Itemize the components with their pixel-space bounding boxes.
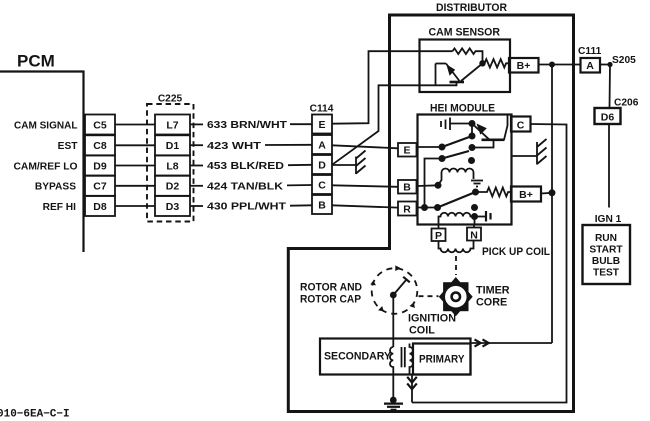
pin D2 [155, 176, 190, 196]
wire switch2 to R row [425, 159, 443, 208]
svg-text:453 BLK/RED: 453 BLK/RED [207, 161, 284, 172]
node secondary ground junction [390, 397, 397, 404]
pin HEI R [398, 202, 417, 216]
svg-text:L8: L8 [166, 160, 178, 172]
svg-text:C111: C111 [578, 46, 602, 57]
wire C114 D diagonal up into distributor [332, 85, 457, 165]
pin HEI B [398, 180, 417, 194]
wire coil2 down to N [474, 217, 476, 225]
svg-text:EST: EST [58, 141, 79, 152]
svg-text:PRIMARY: PRIMARY [419, 354, 465, 366]
rotor contact [390, 277, 410, 299]
wire stub L7 [190, 123, 203, 125]
wire HEI C to right bus [412, 124, 567, 403]
switch2 blade [442, 151, 469, 159]
transformer secondary winding [390, 347, 393, 399]
svg-text:D1: D1 [166, 140, 180, 152]
wire R pin into module [418, 207, 438, 209]
node R row left [421, 204, 428, 211]
HEI module box [418, 115, 512, 225]
primary box [413, 344, 471, 375]
svg-text:C: C [318, 179, 326, 191]
svg-text:B+: B+ [517, 60, 531, 72]
capacitor (pickup) [475, 211, 491, 222]
svg-text:START: START [589, 245, 623, 256]
resistor R1 (cam sensor pull-up) [453, 48, 483, 60]
distributor outline [288, 15, 573, 412]
wire C5-L7 [115, 124, 155, 126]
dashed link pickup to timer core [455, 256, 457, 275]
dashed link timer core to rotor [419, 295, 439, 297]
ground (ignition coil) [384, 404, 403, 410]
wire C114 B to HEI pin R [332, 205, 398, 207]
pin D3 [155, 196, 190, 216]
inductor coil2 (pickup primary) [439, 213, 476, 225]
svg-text:D6: D6 [601, 111, 615, 123]
wire 633 to C114 E [290, 123, 312, 125]
svg-text:CORE: CORE [476, 297, 507, 309]
wire D8-D3 [115, 205, 155, 207]
transistor Q2 (HEI output) [472, 116, 508, 140]
wire 423 to C114 A [265, 144, 312, 146]
node HEI A [469, 120, 476, 127]
svg-text:IGNITION: IGNITION [408, 313, 456, 325]
wire C111 A to S205 [600, 64, 610, 66]
rotor dashed circle [372, 268, 418, 314]
pin D8 [85, 196, 115, 216]
inductor coil1 [438, 169, 474, 186]
transformer primary winding [410, 344, 413, 375]
svg-text:A: A [318, 139, 326, 151]
svg-text:TEST: TEST [593, 268, 620, 279]
wire primary feed with arrows [471, 339, 553, 346]
pin C114 A [312, 135, 332, 154]
svg-text:PCM: PCM [17, 52, 55, 71]
wire C114 D to chassis ground [332, 164, 356, 166]
svg-text:P: P [435, 230, 442, 242]
svg-text:C7: C7 [93, 181, 107, 193]
resistor R2 (cam sensor output) [483, 59, 511, 67]
svg-text:D: D [318, 159, 326, 171]
svg-text:CAM/REF LO: CAM/REF LO [14, 161, 78, 172]
pickup coil winding [439, 241, 474, 253]
wire S205 down to C206 [609, 65, 612, 109]
node switch3 pivot [434, 204, 441, 211]
transistor Q1 (cam sensor) [436, 64, 481, 87]
wire C114 E up to cam sensor [332, 51, 453, 124]
resistor R3 (HEI) [476, 188, 512, 197]
cam sensor box [420, 40, 511, 93]
svg-text:RUN: RUN [595, 233, 617, 244]
svg-text:D9: D9 [93, 160, 107, 172]
node ignition feed junction [549, 62, 555, 68]
svg-text:D8: D8 [93, 201, 107, 213]
label IGNITION COIL [408, 313, 456, 337]
svg-text:B: B [318, 199, 326, 211]
svg-text:DISTRIBUTOR: DISTRIBUTOR [436, 2, 507, 14]
svg-text:PICK UP COIL: PICK UP COIL [482, 246, 550, 258]
svg-text:E: E [403, 145, 410, 157]
capacitor C (HEI noise) [441, 118, 472, 131]
wire node A to node B [471, 124, 473, 137]
svg-text:424 TAN/BLK: 424 TAN/BLK [207, 182, 284, 193]
svg-text:430 PPL/WHT: 430 PPL/WHT [207, 202, 287, 213]
svg-text:C206: C206 [614, 97, 639, 108]
pin D9 [85, 156, 115, 176]
pin C114 D [312, 155, 332, 174]
node coil1 junction [435, 182, 442, 189]
pin P [432, 225, 446, 243]
wire C7-D2 [115, 185, 155, 187]
wire HEI B+ to ignition feed [541, 192, 552, 195]
svg-text:E: E [318, 119, 325, 131]
rotor rotation arrows [370, 265, 415, 311]
pin HEI E [398, 143, 417, 157]
svg-text:C: C [517, 119, 525, 131]
pin C111 A [581, 58, 601, 73]
node HEI D' contact [468, 157, 475, 164]
wire C' contact to Q2 base [472, 141, 494, 148]
wire E pin to switch1 [418, 146, 443, 148]
timer core [439, 277, 473, 316]
svg-text:SECONDARY: SECONDARY [324, 351, 392, 363]
svg-text:ROTOR CAP: ROTOR CAP [300, 294, 361, 306]
pin L8 [155, 156, 190, 176]
node coil2 right [471, 213, 478, 220]
wire C8-D1 [115, 144, 155, 146]
svg-text:423 WHT: 423 WHT [207, 141, 262, 152]
node resistor R3 left [472, 189, 479, 196]
chassis ground at module case [537, 139, 547, 165]
svg-text:C8: C8 [93, 140, 107, 152]
svg-text:C114: C114 [310, 104, 334, 115]
node switch2 pivot [439, 155, 446, 162]
svg-text:COIL: COIL [409, 325, 435, 337]
node spare contact [471, 204, 478, 211]
pin C8 [85, 135, 115, 155]
wire C114 C to HEI pin B [332, 185, 398, 187]
svg-text:L7: L7 [166, 119, 178, 131]
pin HEI C [511, 117, 531, 132]
wire 453 to C114 D [288, 164, 312, 166]
wire ignition feed down [551, 65, 553, 344]
svg-text:C5: C5 [93, 119, 107, 131]
svg-text:C225: C225 [158, 94, 183, 105]
wire stub D2 [190, 185, 203, 187]
pin C114 C [312, 175, 332, 194]
pin L7 [155, 115, 190, 135]
B+ terminal (cam sensor) [509, 58, 539, 73]
wire B+ to C111 A [539, 64, 581, 66]
label ROTOR AND ROTOR CAP [300, 282, 362, 306]
node S205 [607, 62, 612, 67]
svg-text:ROTOR AND: ROTOR AND [300, 282, 362, 294]
wire D6 to IGN 1 [608, 124, 610, 208]
ground (coil1) [471, 181, 483, 187]
svg-text:633 BRN/WHT: 633 BRN/WHT [207, 120, 288, 131]
chassis ground at C114 D [356, 151, 366, 175]
pin C5 [85, 115, 115, 135]
svg-text:N: N [470, 229, 478, 241]
svg-text:A: A [586, 60, 594, 72]
node HEI B+ junction [549, 189, 556, 196]
box RUN START BULB TEST [583, 225, 631, 284]
switch1 blade [442, 136, 472, 147]
svg-text:010−6EA−C−I: 010−6EA−C−I [0, 409, 70, 421]
svg-text:S205: S205 [612, 55, 636, 66]
connector C225 dashed box [147, 104, 194, 222]
svg-text:D3: D3 [166, 201, 180, 213]
wire stub L8 [190, 165, 203, 167]
pin D1 [155, 135, 190, 155]
pin C114 E [312, 115, 332, 134]
pin C206 D6 [595, 108, 621, 124]
wire rotor to ignition coil secondary [392, 295, 394, 347]
svg-text:CAM SENSOR: CAM SENSOR [429, 27, 501, 39]
node HEI B [469, 133, 476, 140]
svg-text:TIMER: TIMER [476, 285, 510, 297]
pin C7 [85, 176, 115, 196]
svg-text:HEI MODULE: HEI MODULE [430, 103, 495, 115]
wire B pin to coil1 [418, 184, 439, 187]
node HEI C' contact [469, 144, 476, 151]
switch3 blade [438, 192, 476, 208]
ignition coil outer box [320, 339, 471, 375]
pin C114 B [312, 195, 332, 214]
wire D9-L8 [115, 165, 155, 167]
node switch1 pivot [439, 144, 446, 151]
svg-text:BULB: BULB [592, 256, 620, 267]
svg-text:B+: B+ [519, 189, 533, 201]
wire 430 to C114 B [290, 204, 312, 206]
wire module case to chassis ground [512, 155, 538, 157]
wire C114 A to HEI pin E [332, 145, 398, 148]
svg-text:BYPASS: BYPASS [35, 182, 76, 193]
node cam collector junction [479, 60, 485, 66]
svg-text:R: R [403, 203, 411, 215]
pin N [467, 225, 481, 242]
svg-text:D2: D2 [166, 181, 180, 193]
wire stub D1 [190, 144, 203, 146]
label TIMER CORE [476, 285, 510, 309]
PCM outline [0, 72, 84, 253]
wire primary negative down with arrows [407, 375, 417, 403]
pin HEI B+ [511, 187, 541, 202]
svg-text:CAM SIGNAL: CAM SIGNAL [14, 120, 78, 131]
wire 424 to C114 C [287, 184, 312, 186]
wire stub D3 [190, 205, 203, 207]
svg-text:REF HI: REF HI [43, 202, 77, 213]
svg-text:B: B [403, 182, 411, 194]
svg-text:IGN 1: IGN 1 [595, 214, 622, 225]
transformer core [402, 347, 405, 367]
